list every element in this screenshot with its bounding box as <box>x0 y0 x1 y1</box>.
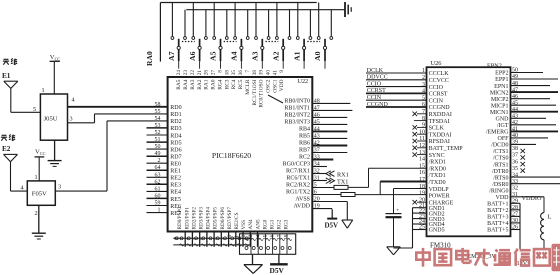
pin 35 RC4 U22 top <box>231 70 237 90</box>
pin 48 EPN1 U26 right <box>494 81 550 90</box>
svg-text:TFSDAI: TFSDAI <box>429 119 450 125</box>
svg-text:38: 38 <box>252 70 258 76</box>
pin 34 RG0/CCP3 U22 right <box>283 162 327 168</box>
svg-text:CC: CC <box>40 151 46 156</box>
pin 52 RD4 U22 left <box>147 130 182 139</box>
svg-text:RG1/TX2: RG1/TX2 <box>286 190 310 196</box>
pin 12 BATT_TEMP U26 left <box>413 143 464 152</box>
svg-text:3: 3 <box>70 116 73 123</box>
svg-text:TXDDAI: TXDDAI <box>429 132 452 138</box>
svg-text:RE5: RE5 <box>170 197 181 203</box>
svg-text:CCGND: CCGND <box>429 105 451 111</box>
svg-text:32: 32 <box>512 185 518 191</box>
svg-text:E1: E1 <box>2 72 11 80</box>
svg-text:36: 36 <box>512 159 518 165</box>
wire DDVCC to U26 pin 2 <box>366 75 427 81</box>
svg-text:15: 15 <box>419 163 425 169</box>
wire CCGND to U26 pin 6 <box>366 102 427 108</box>
svg-text:/EMERG: /EMERG <box>486 130 509 136</box>
svg-text:RD7/PSP7: RD7/PSP7 <box>227 207 233 230</box>
svg-text:AN5: AN5 <box>255 219 261 229</box>
svg-text:VDDLP: VDDLP <box>429 187 450 193</box>
svg-text:OSC1: OSC1 <box>272 79 278 92</box>
pin 7 MCLR U22 top <box>245 70 251 95</box>
svg-text:49: 49 <box>155 151 161 157</box>
wire GND1-GND5 ladder <box>394 208 427 248</box>
pin 45 RB3/INT3 U22 right <box>284 119 347 125</box>
pin 31 VDD U26 right <box>496 192 519 201</box>
power Vcc (J05U) <box>50 54 61 94</box>
svg-text:18: 18 <box>419 184 425 190</box>
pin 31 RC6/TX1 U22 right <box>286 176 327 182</box>
svg-text:BATT+4: BATT+4 <box>487 221 508 227</box>
svg-text:RA0: RA0 <box>211 79 217 89</box>
svg-text:RG4: RG4 <box>217 79 223 89</box>
pin 5 RC2/RX2 U22 right <box>286 183 334 189</box>
pin 43 RB5 U22 right <box>299 133 347 139</box>
svg-text:31: 31 <box>314 176 320 182</box>
pin 21 GND1 U26 left <box>419 203 445 212</box>
svg-text:18: 18 <box>224 70 230 76</box>
connector jumper A6 <box>188 3 208 69</box>
pin 47 MICN2 U26 right <box>490 87 558 96</box>
pin 46 MICP2 U26 right <box>491 94 550 103</box>
svg-text:RC3: RC3 <box>224 79 230 89</box>
pin 11 RFSDAI U26 left <box>413 136 450 145</box>
svg-text:33: 33 <box>314 155 320 161</box>
svg-text:RC2: RC2 <box>299 155 310 161</box>
svg-text:17: 17 <box>419 177 425 183</box>
svg-text:TX1: TX1 <box>337 179 348 186</box>
pin 7 RD4/PSP4 U22 bottom <box>206 207 212 240</box>
pin 55 RD1 U22 left <box>155 109 182 118</box>
svg-text:64: 64 <box>155 165 161 171</box>
svg-text:27: 27 <box>211 70 217 76</box>
svg-text:45: 45 <box>314 119 320 125</box>
svg-text:RB6: RB6 <box>299 141 310 147</box>
pin 10 RD7/PSP7 U22 bottom <box>227 207 233 240</box>
svg-text:52: 52 <box>155 130 161 136</box>
pin 18 RC3 U22 top <box>224 70 230 90</box>
svg-text:5: 5 <box>314 183 317 189</box>
svg-text:CCVCC: CCVCC <box>429 78 449 84</box>
pin 20 CHARGE U26 left <box>413 197 454 206</box>
svg-text:2: 2 <box>35 210 38 217</box>
svg-text:RG2: RG2 <box>277 219 283 229</box>
wire top bus line 1 (RA0 net) <box>160 2 316 4</box>
svg-text:22: 22 <box>190 70 196 76</box>
watermark logo seal <box>552 244 560 271</box>
pin 13 AN4 U22 bottom <box>248 219 254 240</box>
svg-text:RE0: RE0 <box>170 162 181 168</box>
svg-text:RC6/TX1: RC6/TX1 <box>286 176 310 182</box>
svg-text:53: 53 <box>155 123 161 129</box>
pin 64 RE1 U22 left <box>147 165 181 174</box>
svg-text:RD5/PSP5: RD5/PSP5 <box>213 207 219 230</box>
pin 60 RE5 U22 left <box>147 193 181 202</box>
svg-text:RE3: RE3 <box>170 183 181 189</box>
pin 6 CCGND U26 left <box>422 102 450 111</box>
svg-text:MICN2: MICN2 <box>490 90 509 96</box>
svg-text:21: 21 <box>197 70 203 76</box>
pin 46 RB2/INT2 U22 right <box>284 112 347 118</box>
svg-text:MICP2: MICP2 <box>491 97 509 103</box>
pin 44 RB4 U22 right <box>299 126 347 132</box>
pin 49 EPP1 U26 right <box>495 74 558 83</box>
wire RA0 vertical drop <box>159 3 161 62</box>
svg-text:F05V: F05V <box>32 190 47 197</box>
svg-text:/DTR0: /DTR0 <box>492 169 509 175</box>
pin 37 RB7 U22 right <box>299 148 347 154</box>
pin 6 RG1/TX2 U22 right <box>286 190 341 196</box>
svg-text:/DSR0: /DSR0 <box>492 182 508 188</box>
pin 43 GND U26 right <box>496 114 547 123</box>
svg-text:RB3/INT3: RB3/INT3 <box>284 119 310 125</box>
pin 39 /DCD0 U26 right <box>491 140 536 149</box>
svg-text:37: 37 <box>512 153 518 159</box>
pin 24 GND4 U26 left <box>419 219 445 228</box>
svg-text:8: 8 <box>217 70 223 73</box>
inductor L1 <box>541 197 552 249</box>
svg-text:RD0: RD0 <box>170 105 181 111</box>
svg-text:47: 47 <box>314 105 320 111</box>
svg-text:MICP1: MICP1 <box>491 103 509 109</box>
pin 27 RA0 U22 top <box>211 70 217 90</box>
wire DCLK to U26 pin 1 <box>366 68 427 74</box>
svg-text:RC2/RX2: RC2/RX2 <box>286 183 310 189</box>
antenna E1 label <box>2 58 17 80</box>
svg-text:62: 62 <box>155 179 161 185</box>
pin 2 RE0 U22 left <box>147 158 181 167</box>
svg-text:6: 6 <box>314 190 317 196</box>
pin 50 EPP2 U26 right <box>495 68 543 77</box>
pin 45 MICP1 U26 right <box>491 100 556 109</box>
svg-text:20: 20 <box>314 197 320 203</box>
resistor R1 (RX2) <box>334 185 369 189</box>
antenna E1 symbol <box>4 81 18 112</box>
pin 28 RA1 U22 top <box>204 70 210 90</box>
svg-text:RB7: RB7 <box>299 148 310 154</box>
svg-text:DDVCC: DDVCC <box>367 75 388 81</box>
svg-text:54: 54 <box>155 116 161 122</box>
svg-text:GND: GND <box>496 117 510 123</box>
pin 44 MICN1 U26 right <box>490 107 558 116</box>
pin 42 RB6 U22 right <box>299 141 347 147</box>
pin 47 RB1/INT1 U22 right <box>284 105 352 111</box>
svg-text:BATT+2: BATT+2 <box>487 208 508 214</box>
pin 9 VDD U22 top <box>279 70 285 92</box>
pin 30 BATT+4 U26 right <box>487 218 518 227</box>
svg-text:4: 4 <box>72 97 75 104</box>
svg-text:RB5: RB5 <box>299 133 310 139</box>
pin 14 AN5 U22 bottom <box>255 219 261 240</box>
pin 16 /TXD1 U26 left <box>419 170 446 179</box>
svg-text:RG0/CCP3: RG0/CCP3 <box>283 162 310 168</box>
svg-text:RD2: RD2 <box>170 119 181 125</box>
svg-text:RD6: RD6 <box>170 147 181 153</box>
pin 17 RG2 U22 bottom <box>277 219 283 240</box>
wire RX2 to U26 pin15 <box>369 168 427 187</box>
svg-text:RD3/PSP3: RD3/PSP3 <box>199 207 205 230</box>
wire E2 to F05V pin4 <box>11 190 28 192</box>
svg-text:RA0: RA0 <box>145 51 154 66</box>
svg-text:55: 55 <box>155 109 161 115</box>
svg-text:39: 39 <box>259 70 265 76</box>
pin 4 RD1/PSP1 U22 bottom <box>184 207 190 240</box>
pin 49 RD7 U22 left <box>147 151 182 160</box>
pin 23 GND3 U26 left <box>419 214 445 223</box>
svg-text:/CTS0: /CTS0 <box>493 156 509 162</box>
svg-text:1: 1 <box>158 208 161 214</box>
svg-text:43: 43 <box>314 133 320 139</box>
wire VDDLP node to U26 pin18 <box>394 189 427 195</box>
svg-text:46: 46 <box>314 112 320 118</box>
svg-text:RA1: RA1 <box>204 79 210 89</box>
pin 17 /TXD0 U26 left <box>419 177 446 186</box>
pin 7 RXDDAI U26 left <box>413 109 452 118</box>
pin 20 AVSS U22 right <box>295 197 347 203</box>
svg-text:CCRST: CCRST <box>429 92 448 98</box>
pin 51 RD5 U22 left <box>147 137 182 146</box>
pin 34 /RTS0 U26 right <box>493 172 560 181</box>
svg-text:/TXD0: /TXD0 <box>429 180 446 186</box>
wire bottom pin drops <box>185 232 257 247</box>
svg-text:60: 60 <box>155 193 161 199</box>
pin 1 RE7 U22 left <box>147 208 181 217</box>
svg-text:40: 40 <box>266 70 272 76</box>
svg-text:/RTS0: /RTS0 <box>493 175 508 181</box>
svg-text:VDD: VDD <box>496 195 510 201</box>
connector jumper A2 <box>271 3 291 69</box>
connector jumper A3 <box>251 3 279 69</box>
svg-text:CCRST: CCRST <box>367 88 386 94</box>
svg-text:RD5: RD5 <box>170 140 181 146</box>
svg-text:34: 34 <box>314 162 320 168</box>
pin 27 BATT+3 U26 right <box>487 212 518 221</box>
svg-text:23: 23 <box>183 70 189 76</box>
svg-text:EPN1: EPN1 <box>494 84 508 90</box>
svg-text:63: 63 <box>155 172 161 178</box>
svg-text:MICN1: MICN1 <box>490 110 509 116</box>
resistor pack RP1 <box>240 234 296 255</box>
svg-text:RD0/PSP0: RD0/PSP0 <box>177 207 183 230</box>
svg-text:A1: A1 <box>292 51 301 61</box>
svg-text:E2: E2 <box>2 145 11 153</box>
pin 6 RD3/PSP3 U22 bottom <box>199 207 205 240</box>
pin 32 /RING0 U26 right <box>489 185 518 194</box>
pin 53 RD3 U22 left <box>147 123 182 132</box>
svg-text:/IGT: /IGT <box>497 123 509 129</box>
pin 4 CCRST U26 left <box>422 89 448 98</box>
svg-text:38: 38 <box>512 146 518 152</box>
svg-text:44: 44 <box>314 126 320 132</box>
pin 8 RG4 U22 top <box>217 70 223 90</box>
pin 39 RC0/T1OSO U22 top <box>259 70 265 108</box>
antenna switch J05U <box>40 94 67 140</box>
svg-text:41: 41 <box>272 70 278 76</box>
svg-text:32: 32 <box>314 169 320 175</box>
svg-text:RG0: RG0 <box>262 219 268 229</box>
svg-text:RD4: RD4 <box>170 133 181 139</box>
svg-text:RD1/PSP1: RD1/PSP1 <box>184 207 190 230</box>
svg-text:A2: A2 <box>271 51 280 61</box>
pin 9 SCLK U26 left <box>413 123 445 132</box>
svg-text:EPN2: EPN2 <box>487 63 502 70</box>
wire F05V pin2 to ground <box>38 205 40 233</box>
svg-text:1: 1 <box>35 174 38 181</box>
svg-text:RD4/PSP4: RD4/PSP4 <box>206 207 212 230</box>
svg-text:RB4: RB4 <box>299 126 310 132</box>
resistor R2 (TX2) <box>341 193 355 197</box>
pin 35 /DTR0 U26 right <box>492 166 525 175</box>
svg-text:D5V: D5V <box>325 222 339 230</box>
pin 36 RC5 U22 top <box>238 70 244 90</box>
connector jumper A7 <box>167 3 195 69</box>
svg-text:48: 48 <box>314 98 320 104</box>
svg-text:D5V: D5V <box>270 266 285 275</box>
svg-text:POWER: POWER <box>429 194 450 200</box>
svg-text:BATT_TEMP: BATT_TEMP <box>429 146 464 152</box>
svg-text:CCGND: CCGND <box>367 102 389 108</box>
MCU U22 PIC18F6620 body <box>168 77 313 232</box>
pin 23 RA4 U22 top <box>183 70 189 90</box>
svg-text:2: 2 <box>158 158 161 164</box>
antenna E2 label <box>1 134 15 153</box>
svg-text:RE1: RE1 <box>170 169 181 175</box>
pin 13 SYNC U26 left <box>413 150 445 159</box>
pin 59 RE6 U22 left <box>147 201 181 210</box>
svg-text:/RING0: /RING0 <box>489 188 508 194</box>
pin 1 CCCLK U26 left <box>422 68 449 77</box>
pin 8 TFSDAI U26 left <box>414 116 450 125</box>
GSM module U26 body <box>427 60 511 250</box>
pin 12 VSS U22 bottom <box>241 220 247 240</box>
pin 33 /DSR0 U26 right <box>492 179 560 188</box>
svg-text:GND5: GND5 <box>429 228 445 234</box>
pin 48 RB0/INT0 U22 right <box>284 98 350 104</box>
svg-text:U22: U22 <box>298 78 309 85</box>
pin 41 /EMERG U26 right <box>486 127 558 136</box>
pin 2 CCVCC U26 left <box>422 75 449 84</box>
svg-text:RD2/PSP2: RD2/PSP2 <box>191 207 197 230</box>
pin 14 /RXD1 U26 left <box>419 157 446 166</box>
wire TX2 to U26 pin19 POWER <box>355 182 427 195</box>
pin 40 OSC2 U22 top <box>266 70 272 93</box>
svg-text:/TXD1: /TXD1 <box>429 173 446 179</box>
pin 61 RE4 U22 left <box>147 186 181 195</box>
svg-text:42: 42 <box>314 141 320 147</box>
svg-text:RA2: RA2 <box>197 79 203 89</box>
svg-text:RXDDAI: RXDDAI <box>429 112 452 118</box>
svg-text:/RXD1: /RXD1 <box>429 160 446 166</box>
svg-text:VDDIO: VDDIO <box>522 195 542 202</box>
pin 63 RE2 U22 left <box>147 172 181 181</box>
wire MCLR diagonal <box>268 95 283 103</box>
svg-text:59: 59 <box>155 201 161 207</box>
pin 5 RD2/PSP2 U22 bottom <box>191 207 197 240</box>
svg-text:RG3: RG3 <box>284 219 290 229</box>
ground (MCU bottom) <box>244 254 263 273</box>
svg-text:19: 19 <box>314 204 320 210</box>
svg-text:RX1: RX1 <box>337 171 349 178</box>
svg-text:A6: A6 <box>188 51 197 61</box>
pin 11 RE2/CS U22 bottom <box>234 212 240 240</box>
svg-text:BATT+1: BATT+1 <box>487 202 508 208</box>
svg-text:CCCLK: CCCLK <box>429 71 450 77</box>
svg-text:50: 50 <box>155 144 161 150</box>
ground (J05U) <box>48 161 62 167</box>
svg-text:51: 51 <box>155 137 161 143</box>
pin 22 GND2 U26 left <box>419 208 445 217</box>
svg-text:RB0/INT0: RB0/INT0 <box>284 98 310 104</box>
pin 5 CCIN U26 left <box>422 95 444 104</box>
wire CCIN to U26 pin 5 <box>366 95 427 101</box>
svg-text:35: 35 <box>231 70 237 76</box>
node VDDIO <box>511 195 545 202</box>
pin 18 RG3 U22 bottom <box>284 219 290 240</box>
ground (C1 / GND bus) <box>387 247 401 255</box>
svg-text:OSC2: OSC2 <box>266 79 272 92</box>
capacitor C1 electrolytic <box>386 189 402 247</box>
svg-text:1: 1 <box>42 87 45 94</box>
svg-text:RC1/T1OSI: RC1/T1OSI <box>252 79 258 105</box>
svg-text:36: 36 <box>238 70 244 76</box>
svg-text:9: 9 <box>279 70 285 73</box>
connector jumper A4 <box>230 3 250 69</box>
svg-text:RG1: RG1 <box>270 219 276 229</box>
svg-text:SCLK: SCLK <box>429 126 445 132</box>
svg-text:CCIN: CCIN <box>367 95 382 101</box>
pin 16 RG1 U22 bottom <box>270 219 276 240</box>
wire J05U pin3 to RD1 <box>68 114 168 123</box>
pin 9 RD6/PSP6 U22 bottom <box>220 207 226 240</box>
pin 62 RE3 U22 left <box>147 179 181 188</box>
svg-text:EPP2: EPP2 <box>495 71 508 77</box>
pin 33 RC2 U22 right <box>299 155 333 161</box>
pin 19 AVDD U22 right <box>293 204 332 210</box>
svg-text:A7: A7 <box>167 51 176 61</box>
pin 26 BATT+5 U26 right <box>487 225 518 234</box>
svg-text:BATT+5: BATT+5 <box>487 228 508 234</box>
svg-text:AVDD: AVDD <box>293 204 310 210</box>
wire E1 to J05U pin5 <box>11 111 41 113</box>
svg-text:58: 58 <box>155 102 161 108</box>
pin 3 RD0/PSP0 U22 bottom <box>177 207 183 240</box>
svg-text:OFF: OFF <box>497 136 509 142</box>
svg-text:5: 5 <box>33 106 36 113</box>
watermark 中国电力通信网 <box>416 248 549 267</box>
pin 54 RD2 U22 left <box>155 116 182 125</box>
capacitor bank rails <box>173 237 250 246</box>
connector jumper A5 <box>209 3 237 69</box>
svg-text:PIC18F6620: PIC18F6620 <box>212 151 251 160</box>
svg-text:/RTS1: /RTS1 <box>493 162 508 168</box>
node RX1 off-page chevron <box>326 171 349 179</box>
svg-text:J05U: J05U <box>44 115 58 122</box>
pin 38 RC1/T1OSI U22 top <box>252 70 258 106</box>
power D5V (AVDD) <box>325 209 339 229</box>
pin 25 GND5 U26 left <box>419 225 445 234</box>
svg-text:RA4: RA4 <box>183 79 189 89</box>
svg-text:RC5: RC5 <box>238 79 244 89</box>
pin 15 RG0 U22 bottom <box>262 219 268 240</box>
svg-text:CCIN: CCIN <box>429 98 444 104</box>
ground (AVSS) <box>342 202 353 229</box>
connector jumper A0 <box>313 3 332 69</box>
node TX1 off-page chevron <box>326 178 349 186</box>
pin 3 CCIO U26 left <box>422 82 444 91</box>
svg-text:RD7: RD7 <box>170 155 181 161</box>
